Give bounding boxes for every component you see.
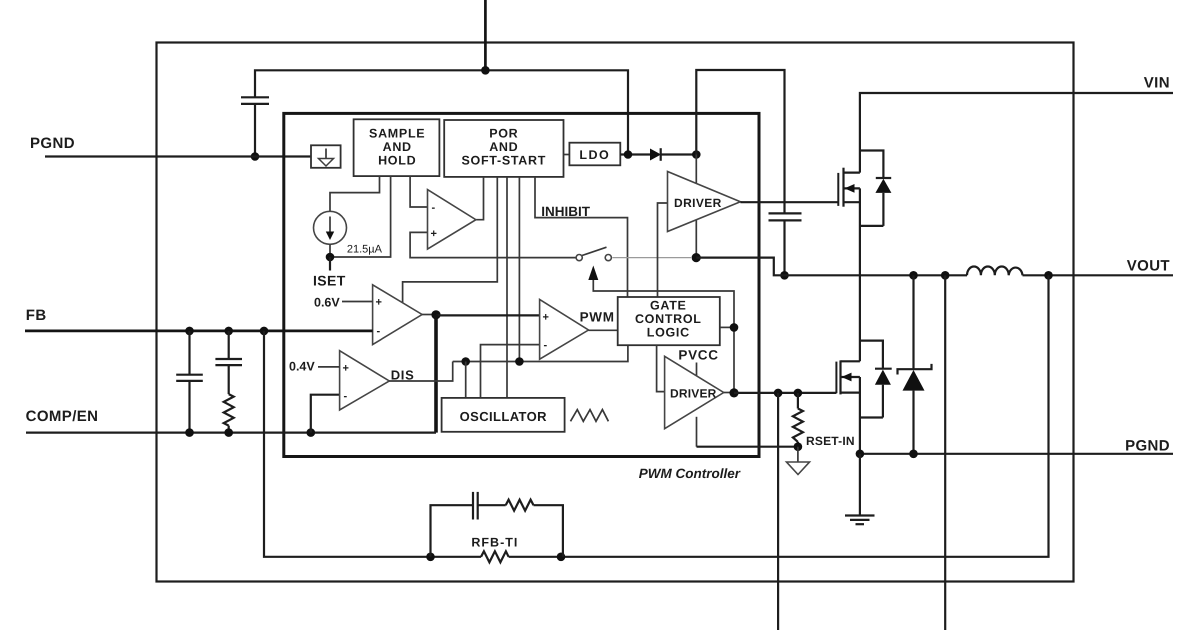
node switch output junction <box>692 253 701 262</box>
svg-text:PWM: PWM <box>580 309 615 324</box>
node fet source / pgnd <box>856 450 865 459</box>
node gate sense junction <box>774 389 783 398</box>
svg-text:-: - <box>377 326 381 338</box>
node boot cap bottom <box>780 271 789 280</box>
node FB junctions <box>185 327 194 336</box>
wire vout feedback drop <box>561 275 1049 557</box>
wire ISET to sample/hold <box>330 176 391 257</box>
ground analog triangle <box>787 447 810 475</box>
wire error amp output <box>422 314 436 316</box>
outer application box <box>157 43 1074 582</box>
capacitor C-comp1 <box>176 331 203 433</box>
wire 0.4V reference <box>318 366 340 368</box>
wire comp to pwm plus <box>436 314 540 316</box>
svg-text:GATE: GATE <box>650 299 687 313</box>
node vout sense <box>941 271 950 280</box>
wire LDO output row <box>620 153 651 155</box>
wire VOUT line right segment <box>1023 274 1174 276</box>
inner PWM controller box <box>284 113 759 456</box>
capacitor C-pgnd top-left <box>241 97 269 156</box>
box SAMPLE AND HOLD <box>354 119 440 176</box>
wire POR lead to oscillator <box>506 177 508 398</box>
svg-text:AND: AND <box>489 140 518 154</box>
svg-text:LDO: LDO <box>579 148 610 162</box>
svg-text:+: + <box>343 363 349 375</box>
svg-text:-: - <box>544 340 548 352</box>
box GATE CONTROL LOGIC <box>618 297 720 345</box>
inductor L1 <box>967 266 1023 275</box>
node error amp output <box>431 310 440 319</box>
svg-text:+: + <box>376 297 382 309</box>
diode body Q2 <box>860 341 892 418</box>
svg-text:SAMPLE: SAMPLE <box>369 126 425 140</box>
node RFB right <box>557 553 566 562</box>
error amplifier U3 0.6V <box>373 285 423 345</box>
wire GCL right output stub <box>720 326 734 328</box>
node schottky anode <box>909 450 918 459</box>
capacitor C-boot <box>769 213 802 275</box>
svg-text:POR: POR <box>489 126 518 140</box>
diode D2 schottky catch <box>898 275 932 454</box>
svg-text:0.4V: 0.4V <box>289 359 315 373</box>
wire top horizontal bias rail <box>255 70 628 154</box>
svg-text:CONTROL: CONTROL <box>635 312 702 326</box>
wire vout sense exit bottom <box>944 275 946 630</box>
svg-text:-: - <box>344 391 348 403</box>
node diode cathode <box>692 150 701 159</box>
svg-text:RSET-IN: RSET-IN <box>806 434 855 448</box>
wire comp down to COMP/EN <box>434 315 438 433</box>
node ISET <box>326 253 335 262</box>
svg-text:0.6V: 0.6V <box>314 296 340 310</box>
wire switch control line to gate-control <box>593 280 734 393</box>
box LDO <box>564 154 570 156</box>
svg-text:DRIVER: DRIVER <box>674 196 722 210</box>
svg-text:AND: AND <box>383 140 412 154</box>
pin stub ISET <box>329 257 331 271</box>
driver U2 high-side DRIVER <box>658 172 741 298</box>
wire VIN <box>860 93 1173 173</box>
node driver2 output junction <box>729 388 738 397</box>
comparator U5 PWM <box>540 300 589 360</box>
node top junction <box>481 66 490 75</box>
wire 0.6V reference <box>342 301 373 303</box>
wire PWM output <box>589 329 618 331</box>
svg-text:COMP/EN: COMP/EN <box>26 408 99 425</box>
node schottky top <box>909 271 918 280</box>
icon triangle wave <box>571 410 609 422</box>
node cap/PGND junction <box>251 152 260 161</box>
wire top entry vertical <box>484 0 487 70</box>
wire POR lead to soft-start clamp <box>403 177 498 303</box>
wire driver2 output <box>724 392 734 394</box>
svg-text:VIN: VIN <box>1144 75 1170 92</box>
box OSCILLATOR <box>442 398 565 432</box>
wire high-side gate <box>740 201 838 203</box>
transistor Q1 high-side NFET <box>838 168 860 276</box>
node RSET bottom <box>794 442 803 451</box>
wire DIS output <box>389 362 452 382</box>
node RSET top junction <box>794 389 803 398</box>
node POR lead junction <box>515 357 524 366</box>
diode D-boot <box>650 149 661 161</box>
svg-text:+: + <box>431 228 437 240</box>
svg-text:FB: FB <box>26 307 47 324</box>
wire dis/osc line to gate control <box>453 345 628 361</box>
node COMP junctions <box>185 428 194 437</box>
svg-text:DIS: DIS <box>391 368 415 383</box>
wire POR lead to dis/gate line <box>518 177 520 362</box>
node GCL output junction <box>730 323 739 332</box>
capacitor and resistor feed-forward branch <box>431 492 563 557</box>
svg-text:PGND: PGND <box>1125 438 1170 455</box>
wire GCL to driver2 input <box>657 345 665 391</box>
svg-text:DRIVER: DRIVER <box>670 387 717 401</box>
PGND pin symbol box with down arrow <box>311 145 341 168</box>
comparator U4 DIS 0.4V <box>311 351 390 433</box>
node LDO output <box>624 150 633 159</box>
wire VOUT line left segment <box>785 274 968 276</box>
wire gate sense exit bottom <box>777 393 779 630</box>
wire oscillator top leads <box>465 362 467 398</box>
svg-text:PGND: PGND <box>30 135 75 152</box>
svg-text:VOUT: VOUT <box>1127 257 1170 274</box>
svg-text:SOFT-START: SOFT-START <box>462 154 547 168</box>
svg-text:LOGIC: LOGIC <box>647 326 690 340</box>
wire PWM minus to oscillator <box>481 345 540 398</box>
wire COMP/EN line <box>26 432 436 434</box>
svg-text:HOLD: HOLD <box>378 154 416 168</box>
diode body Q1 <box>860 151 891 226</box>
resistor R-comp <box>224 394 234 426</box>
ground earth symbol <box>845 454 875 524</box>
wire PGND right line <box>860 453 1173 455</box>
svg-text:21.5µA: 21.5µA <box>347 244 383 256</box>
svg-text:RFB-TI: RFB-TI <box>471 535 518 549</box>
driver U6 low-side DRIVER <box>665 356 724 446</box>
svg-text:PVCC: PVCC <box>678 348 718 363</box>
wire driver2 return <box>697 446 798 448</box>
wire PGND left <box>45 155 311 157</box>
arrow switch actuator <box>588 266 598 281</box>
capacitor C-comp2 <box>215 331 242 394</box>
svg-text:INHIBIT: INHIBIT <box>541 204 591 219</box>
wire INHIBIT <box>535 177 628 297</box>
node vout feedback <box>1044 271 1053 280</box>
svg-text:-: - <box>432 202 436 214</box>
svg-text:ISET: ISET <box>313 273 346 289</box>
wire switch node to phase node <box>696 258 784 276</box>
wire FB to RFB network <box>264 331 431 557</box>
current source 21.5uA <box>314 176 380 257</box>
resistor RFB-TI <box>431 551 562 562</box>
svg-text:PWM Controller: PWM Controller <box>639 466 741 481</box>
op-amp U1 soft-start comparator <box>410 176 575 258</box>
resistor RSET-IN <box>793 393 803 447</box>
wire boot capacitor branch <box>696 70 784 213</box>
switch S1 blade and contacts <box>576 247 691 261</box>
box POR AND SOFT-START <box>444 120 563 177</box>
transistor Q2 low-side NFET <box>836 275 860 454</box>
wire low-side gate line <box>734 392 836 394</box>
wire driver1 supply through triangle <box>695 155 697 258</box>
svg-text:OSCILLATOR: OSCILLATOR <box>460 409 548 424</box>
wire FB line <box>25 330 373 333</box>
node RFB left <box>426 553 435 562</box>
node osc lead junction <box>461 357 470 366</box>
svg-text:+: + <box>543 312 549 324</box>
